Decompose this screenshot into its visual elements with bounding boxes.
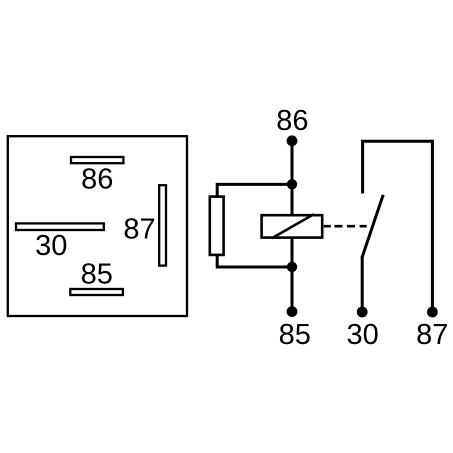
wire coil down to 85 <box>291 238 294 312</box>
pin 87 terminal slot <box>159 185 166 265</box>
pin 30 terminal slot <box>16 223 104 230</box>
svg-text:87: 87 <box>416 319 448 351</box>
wire resistor bottom to junction <box>217 256 292 268</box>
node 86 terminal dot <box>287 135 298 146</box>
pin 86 terminal slot <box>71 157 123 163</box>
wire junction to resistor top <box>217 184 292 197</box>
svg-text:30: 30 <box>346 319 378 351</box>
svg-text:85: 85 <box>81 259 113 291</box>
wire switch fixed contact to 87 <box>363 141 433 312</box>
node 87 terminal dot <box>427 307 438 318</box>
wire armature to 30 <box>361 257 364 312</box>
mechanical link stub from coil <box>324 225 331 228</box>
junction coil bottom <box>287 262 297 272</box>
svg-text:86: 86 <box>276 105 308 137</box>
coil K1 diagonal <box>272 214 314 238</box>
junction coil top <box>287 179 297 189</box>
coil K1 body <box>262 215 323 237</box>
node 85 terminal dot <box>287 306 298 317</box>
svg-text:30: 30 <box>35 230 67 262</box>
svg-text:86: 86 <box>81 163 113 195</box>
resistor (suppression) <box>210 197 224 255</box>
switch armature <box>362 195 383 258</box>
pin 85 terminal slot <box>70 289 123 295</box>
node 30 terminal dot <box>357 307 368 318</box>
wire 86 down to coil <box>291 141 294 215</box>
relay pinout box <box>8 136 187 316</box>
svg-text:87: 87 <box>123 213 155 245</box>
svg-text:85: 85 <box>279 319 311 351</box>
mechanical link dashed line <box>334 225 366 228</box>
